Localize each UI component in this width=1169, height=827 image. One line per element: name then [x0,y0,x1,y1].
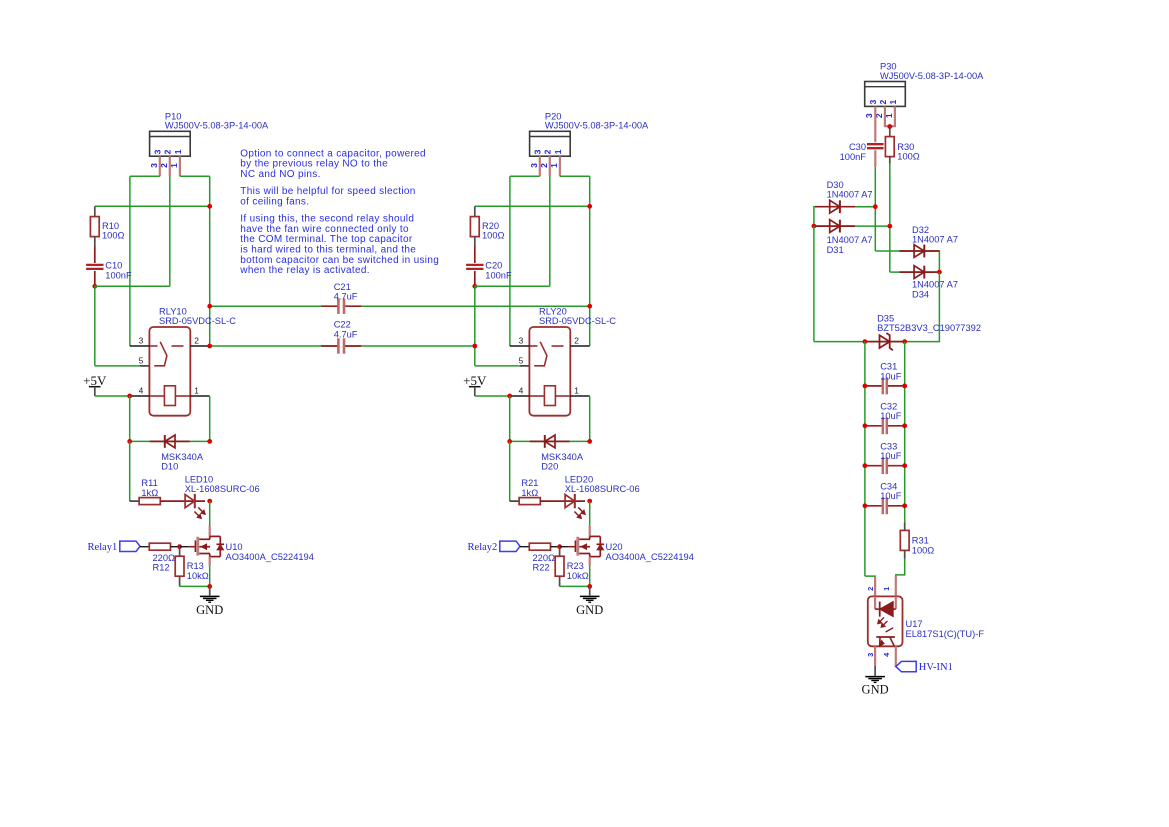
svg-text:D31: D31 [827,245,844,255]
svg-text:C34: C34 [880,482,897,492]
wire vertical pin2 down [169,176,171,286]
opto pin4 stub [895,646,897,666]
svg-text:4: 4 [882,652,891,657]
resistor R13 10kΩ [175,556,184,576]
svg-text:C10: C10 [105,261,122,271]
svg-text:GND: GND [862,683,889,697]
capacitor C10 100nF [94,247,96,264]
net flag Relay1 [120,541,140,551]
svg-text:3: 3 [533,149,543,154]
svg-text:GND: GND [196,603,223,617]
gray stub to R pull-down [559,547,561,557]
mosfet source stub [589,557,591,567]
node diode right [587,439,592,444]
node diode left [507,439,512,444]
svg-text:3: 3 [864,113,874,118]
wire C21 row [210,305,590,307]
svg-text:10uF: 10uF [880,451,902,461]
wire P pin1 row [180,175,210,177]
svg-text:AO3400A_C5224194: AO3400A_C5224194 [226,552,314,562]
svg-text:3: 3 [139,335,144,345]
P30 pin 1 stub [890,106,895,126]
wire P pin1 row [560,175,590,177]
wire P pin3 row [510,175,540,177]
diode D32 1N4007 [899,250,939,252]
svg-text:XL-1608SURC-06: XL-1608SURC-06 [185,484,260,494]
svg-text:SRD-05VDC-SL-C: SRD-05VDC-SL-C [159,316,236,326]
diode D34 1N4007 [899,271,939,273]
svg-text:100Ω: 100Ω [912,545,935,555]
svg-text:WJ500V-5.08-3P-14-00A: WJ500V-5.08-3P-14-00A [165,121,269,131]
P30 pin 2 stub [885,106,890,126]
resistor R30 100Ω [885,137,894,157]
svg-text:1: 1 [553,149,563,154]
svg-text:C22: C22 [334,320,351,330]
node LED right [207,499,212,504]
resistor R21 1kΩ [519,498,540,505]
wire source down [589,566,591,586]
svg-text:C31: C31 [880,362,897,372]
gray stub to R31 [904,522,906,530]
node LED right [587,499,592,504]
wire D31 row [814,225,890,227]
capacitor C22 4.7uF [339,343,343,349]
svg-text:1kΩ: 1kΩ [141,488,158,498]
wire C bottom down to relay pin 5 [94,286,96,366]
wire pin1 down to diode [589,396,591,441]
node junction [587,204,592,209]
wire C30 down [874,167,876,251]
svg-text:2: 2 [574,335,579,345]
svg-text:1: 1 [882,587,891,591]
node C34 right [902,503,907,508]
svg-text:1N4007 A7: 1N4007 A7 [827,235,873,245]
svg-text:R23: R23 [567,561,584,571]
P10 pin stubs [159,156,161,176]
relay pin1 stub [190,395,209,397]
wire R30 down [889,164,891,272]
svg-text:MSK340A: MSK340A [161,452,204,462]
transistor U20 AO3400A_C5224194 [576,537,579,556]
RLY10 switch contact [149,345,157,347]
node gnd junction [587,584,592,589]
svg-text:3: 3 [519,335,524,345]
svg-text:1: 1 [888,100,898,105]
node D35 left [863,339,868,344]
mosfet drain stub [589,525,591,536]
svg-text:C21: C21 [334,282,351,292]
svg-text:D20: D20 [541,462,558,472]
svg-text:R10: R10 [102,221,119,231]
resistor R10 100Ω [90,217,99,237]
zener diode D35 BZT52B3V3 [865,341,905,343]
svg-text:10kΩ: 10kΩ [187,571,209,581]
resistor R20 100Ω [470,217,479,237]
wire cap ladder left vertical [864,342,866,576]
wire diode left down to R row [509,441,511,501]
svg-text:4: 4 [519,385,524,395]
wire R top row [475,205,590,207]
svg-text:+5V: +5V [463,373,487,388]
svg-text:LED10: LED10 [185,474,213,484]
svg-text:2: 2 [194,335,199,345]
resistor R11 1kΩ [139,498,160,505]
wire D34 row [890,271,940,273]
node C34 left [863,503,868,508]
svg-text:LED20: LED20 [565,474,593,484]
svg-text:2: 2 [866,587,875,591]
svg-text:3: 3 [149,163,159,168]
node D31 right [887,224,892,229]
node diode left [127,439,132,444]
wire to resistor [130,500,139,502]
svg-text:WJ500V-5.08-3P-14-00A: WJ500V-5.08-3P-14-00A [880,71,984,81]
relay pin2 stub [190,345,209,347]
ground [589,586,591,595]
svg-text:1kΩ: 1kΩ [521,488,538,498]
wire left vertical to D35 [813,226,815,342]
gray stub to R30 [889,127,891,137]
P20 pin stubs [539,156,541,176]
svg-text:220Ω: 220Ω [533,553,556,563]
capacitor C34 10uF [884,503,886,509]
svg-text:4: 4 [139,385,144,395]
RLY20 coil [544,386,555,406]
svg-text:Relay2: Relay2 [468,542,498,553]
wire to source/gnd [180,585,210,587]
wire C32 row [865,425,905,427]
svg-text:U10: U10 [226,542,243,552]
wire D32 row [875,251,939,272]
node gate junction [177,544,182,549]
svg-text:U20: U20 [606,542,623,552]
svg-text:+5V: +5V [83,373,107,388]
wire pin4 down to diode [129,396,131,441]
gray stub R bottom [474,237,476,247]
node pin4 junction [507,394,512,399]
U17 emission arrows [878,617,884,623]
node D34 right [937,270,942,275]
capacitor C31 10uF [884,383,886,389]
wire C34 row [865,505,905,507]
wire to resistor [510,500,519,502]
wire flag to R [140,546,149,548]
wire C bottom to pin2 vertical [475,285,550,287]
wire pin4 down to diode [509,396,511,441]
svg-text:of ceiling fans.: of ceiling fans. [240,197,309,208]
svg-text:EL817S1(C)(TU)-F: EL817S1(C)(TU)-F [906,629,985,639]
node C bottom junction [472,284,477,289]
wire +5V to relay pin 4 [475,395,510,397]
svg-text:MSK340A: MSK340A [541,452,584,462]
svg-text:R13: R13 [187,561,204,571]
node C22 left [207,344,212,349]
P30 pin 3 stub [874,106,876,142]
relay pin3 stub [130,345,150,347]
svg-text:WJ500V-5.08-3P-14-00A: WJ500V-5.08-3P-14-00A [545,121,649,131]
node C31 left [863,384,868,389]
svg-text:R12: R12 [153,563,170,573]
diode D31 1N4007 [815,225,855,227]
gray stub R bottom [559,576,561,586]
relay pin5 stub [140,365,150,367]
svg-text:HV-IN1: HV-IN1 [919,662,953,673]
gray stub to R [94,206,96,216]
svg-text:D10: D10 [161,462,178,472]
relay pin5 stub [520,365,530,367]
svg-text:100nF: 100nF [840,152,867,162]
opto pin2 stub [874,577,876,596]
svg-text:10uF: 10uF [880,491,902,501]
wire C22 row [210,345,475,347]
gray stub R bottom [179,576,181,586]
node pins 1-2 junction [887,124,892,129]
node D30 right [873,204,878,209]
mosfet source stub [209,557,211,567]
wire to source/gnd [560,585,590,587]
svg-text:D35: D35 [877,313,894,323]
wire ladder to opto pin2 [865,576,875,578]
node gate junction [557,544,562,549]
svg-text:5: 5 [519,355,524,365]
capacitor C33 10uF [884,463,886,469]
svg-text:3: 3 [866,653,875,657]
svg-text:2: 2 [163,149,173,154]
opto pin1 stub [895,576,897,596]
wire cap ladder right vertical [904,342,906,523]
wire P pin3 row [130,175,160,177]
svg-text:1N4007 A7: 1N4007 A7 [912,280,958,290]
relay pin4 stub [130,395,150,397]
diode D30 1N4007 [815,206,855,208]
optocoupler U17 EL817S1(C)(TU)-F [868,596,903,646]
gate wire [560,546,569,548]
svg-text:3: 3 [868,100,878,105]
node gnd junction [207,584,212,589]
svg-text:10kΩ: 10kΩ [567,571,589,581]
wire vertical pin2 down [549,176,551,286]
capacitor C30 100nF [867,143,884,145]
diode D10 MSK340A [150,440,190,442]
node C21 left [207,304,212,309]
svg-text:D34: D34 [912,289,929,299]
svg-text:4.7uF: 4.7uF [334,292,358,302]
LED LED20 XL-1608SURC-06 [540,500,560,502]
svg-text:5: 5 [139,355,144,365]
wire diode row [130,440,210,442]
wire vertical pin1 down [589,176,591,346]
resistor R12 220Ω [149,543,170,550]
transistor U10 AO3400A_C5224194 [196,537,199,556]
resistor R23 10kΩ [555,556,564,576]
wire vertical pin3 to relay pin 3 [509,176,511,346]
node C33 right [902,463,907,468]
svg-text:100nF: 100nF [105,270,132,280]
mosfet drain stub [209,525,211,536]
RLY20 switch contact [529,345,537,347]
svg-text:when the relay is activated.: when the relay is activated. [239,265,370,276]
svg-text:C33: C33 [880,441,897,451]
gray stub to R [474,206,476,216]
wire LED row down to mosfet drain [589,501,591,526]
svg-text:BZT52B3V3_C19077392: BZT52B3V3_C19077392 [877,323,981,333]
svg-text:U17: U17 [906,619,923,629]
gray stub R31 bottom [904,550,906,558]
wire source down [209,566,211,586]
wire R31 to opto pin1 [896,559,905,578]
node pin4 junction [127,394,132,399]
svg-text:D30: D30 [827,180,844,190]
svg-text:3: 3 [529,163,539,168]
svg-text:R22: R22 [533,563,550,573]
node diode right [207,439,212,444]
svg-text:10uF: 10uF [880,371,902,381]
wire R to gate junction [171,546,180,548]
resistor R22 220Ω [529,543,550,550]
svg-text:C32: C32 [880,402,897,412]
relay pin1 stub [570,395,589,397]
svg-text:XL-1608SURC-06: XL-1608SURC-06 [565,484,640,494]
svg-text:100Ω: 100Ω [102,231,125,241]
net flag Relay2 [500,541,520,551]
svg-text:C30: C30 [849,142,866,152]
ground [209,586,211,595]
svg-text:2: 2 [543,149,553,154]
ground U17 [874,666,876,676]
svg-text:2: 2 [878,100,888,105]
wire diode row [510,440,590,442]
wire C bottom to pin2 vertical [95,285,170,287]
wire pin1 down to diode [209,396,211,441]
RLY10 coil [164,386,175,406]
node C21 right [587,304,592,309]
svg-text:1: 1 [574,385,579,395]
svg-text:C20: C20 [485,261,502,271]
capacitor C32 10uF [884,423,886,429]
svg-text:SRD-05VDC-SL-C: SRD-05VDC-SL-C [539,316,616,326]
node C22 right [472,344,477,349]
svg-text:R11: R11 [141,478,157,488]
node C32 right [902,423,907,428]
node junction [207,204,212,209]
wire R to gate junction [551,546,560,548]
node C33 left [863,463,868,468]
svg-text:R30: R30 [897,142,914,152]
U17 phototransistor [876,636,895,638]
gray stub R30 bottom [889,157,891,164]
svg-text:100Ω: 100Ω [482,231,505,241]
capacitor C20 100nF [474,247,476,264]
resistor R31 100Ω [900,530,909,550]
node C31 right [902,384,907,389]
wire C31 row [865,385,905,387]
svg-text:220Ω: 220Ω [153,553,176,563]
svg-text:1N4007 A7: 1N4007 A7 [827,190,873,200]
wire C33 row [865,465,905,467]
svg-text:1N4007 A7: 1N4007 A7 [912,235,958,245]
wire vertical pin3 to relay pin 3 [129,176,131,346]
wire flag to R [520,546,529,548]
wire diode left down to R row [129,441,131,501]
gray stub to R pull-down [179,547,181,557]
svg-text:Relay1: Relay1 [88,542,118,553]
wire D30 row [814,207,875,226]
LED LED10 XL-1608SURC-06 [160,500,180,502]
svg-text:3: 3 [153,149,163,154]
wire R top row [95,205,210,207]
gray stub R bottom [94,237,96,247]
svg-text:1: 1 [173,149,183,154]
svg-text:R31: R31 [912,536,929,546]
svg-text:R21: R21 [521,478,538,488]
wire LED row down to mosfet drain [209,501,211,526]
svg-text:100nF: 100nF [485,270,512,280]
svg-text:4.7uF: 4.7uF [334,329,358,339]
svg-text:100Ω: 100Ω [897,152,920,162]
relay pin4 stub [510,395,530,397]
svg-text:NC and NO pins.: NC and NO pins. [240,169,320,180]
node D35 right [902,339,907,344]
wire vertical pin1 down [209,176,211,346]
svg-text:R20: R20 [482,221,499,231]
svg-text:AO3400A_C5224194: AO3400A_C5224194 [606,552,694,562]
wire right vertical down to D35 [905,272,940,342]
capacitor C21 4.7uF [339,303,343,309]
diode D20 MSK340A [530,440,570,442]
svg-text:GND: GND [576,603,603,617]
node C bottom junction [92,284,97,289]
relay pin2 stub [570,345,589,347]
node C32 left [863,423,868,428]
wire C bottom down to relay pin 5 [474,286,476,366]
U17 internal LED [874,596,876,609]
wire +5V to relay pin 4 [95,395,130,397]
gate wire [180,546,189,548]
net flag HV-IN1 [896,661,916,671]
opto pin3 stub [874,646,876,665]
relay pin3 stub [510,345,530,347]
svg-text:1: 1 [194,385,199,395]
svg-text:D32: D32 [912,225,929,235]
node D31 left [812,224,817,229]
svg-text:10uF: 10uF [880,411,902,421]
wire D35 row [814,341,905,343]
